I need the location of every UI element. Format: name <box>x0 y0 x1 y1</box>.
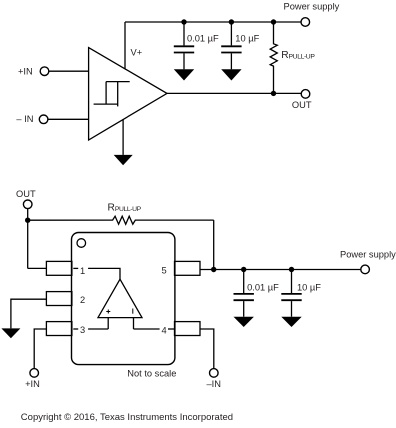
wire: - input stub <box>133 318 135 329</box>
wire: -IN to comparator <box>48 118 89 120</box>
node: power supply terminal (bottom) <box>361 265 370 274</box>
svg-text:0.01 µF: 0.01 µF <box>247 283 279 293</box>
node: junction dot cap2/rail <box>229 19 234 24</box>
wire: top power rail <box>125 21 301 23</box>
node: +IN terminal (bottom) <box>30 369 39 378</box>
wire: OUT down the left side <box>27 209 29 269</box>
capacitor C3 0.01 uF (bottom) <box>234 270 254 317</box>
svg-text:OUT: OUT <box>16 189 36 199</box>
svg-text:Power supply: Power supply <box>284 1 340 11</box>
wire: comparator output to OUT <box>167 92 301 94</box>
node: + input mark <box>106 310 110 314</box>
node: power supply terminal (top) <box>301 18 310 27</box>
node: pin 1 indicator circle <box>77 239 86 248</box>
capacitor C2 10 uF (top) <box>221 22 241 69</box>
pin 4 pad <box>175 322 201 336</box>
resistor R pull-up (top, vertical) <box>270 22 277 93</box>
wire: + input stub <box>107 318 109 329</box>
svg-text:OUT: OUT <box>292 100 312 110</box>
svg-text:Copyright © 2016, Texas Instru: Copyright © 2016, Texas Instruments Inco… <box>21 412 233 423</box>
pin 3 pad <box>46 322 72 336</box>
wire: pin 1 tick <box>73 267 78 269</box>
svg-text:V+: V+ <box>131 47 143 57</box>
pin 5 pad <box>175 261 201 275</box>
svg-text:4: 4 <box>162 325 167 335</box>
node: -IN terminal (top) <box>39 115 48 124</box>
wire: +IN to pin 3 <box>34 329 46 369</box>
svg-text:Not to scale: Not to scale <box>127 369 176 379</box>
hysteresis symbol inside comparator <box>94 82 130 107</box>
node: junction dot OUT/resistor <box>25 218 30 223</box>
capacitor C4 10 uF (bottom) <box>281 270 301 317</box>
svg-text:– IN: – IN <box>16 114 33 124</box>
ground: below C2 <box>221 69 241 80</box>
svg-text:2: 2 <box>80 295 85 305</box>
svg-text:0.01 µF: 0.01 µF <box>187 34 219 44</box>
svg-text:3: 3 <box>80 325 85 335</box>
node: junction dot cap4/rail <box>289 267 294 272</box>
capacitor C1 0.01 uF (top) <box>174 22 194 69</box>
wire: pin 1 to comparator output <box>88 268 120 279</box>
wire: pin 3 tick <box>73 328 78 330</box>
node: OUT terminal (bottom) <box>23 200 32 209</box>
svg-text:–IN: –IN <box>207 379 221 389</box>
ground: bottom left <box>1 328 20 338</box>
wire: ground from pin 2 <box>11 299 47 328</box>
wire: resistor down to power rail <box>213 220 215 269</box>
wire: - input to pin 4 <box>134 328 160 330</box>
wire: pin 4 to -IN <box>200 329 214 369</box>
IC package outline U1 (SC70-5) <box>72 233 175 365</box>
node: junction dot resistor/rail <box>271 19 276 24</box>
ground: below C3 <box>234 317 254 327</box>
ground: below comparator <box>114 119 133 165</box>
node: junction dot cap3/rail <box>241 267 246 272</box>
wire: pin 4 tick <box>168 328 175 330</box>
op-amp triangle inside package <box>98 279 142 317</box>
svg-text:Power supply: Power supply <box>340 249 396 259</box>
node: junction dot cap1/rail <box>181 19 186 24</box>
wire: pin 3 to + input <box>88 328 108 330</box>
node: junction dot resistor/output <box>271 91 276 96</box>
svg-text:10 µF: 10 µF <box>235 34 259 44</box>
resistor R pull-up (bottom, horizontal) <box>28 216 214 224</box>
node: OUT terminal (top) <box>301 90 310 99</box>
svg-text:10 µF: 10 µF <box>297 283 321 293</box>
svg-text:5: 5 <box>162 266 167 276</box>
svg-text:+IN: +IN <box>18 66 33 76</box>
ground: below C1 <box>174 69 194 80</box>
svg-text:+IN: +IN <box>25 379 40 389</box>
pin 2 pad <box>46 292 72 306</box>
node: junction dot resistor branch/rail <box>211 267 216 272</box>
wire: OUT to pin 1 <box>28 267 47 269</box>
wire: +IN to comparator <box>49 70 89 72</box>
ground: below C4 <box>281 317 301 327</box>
svg-text:1: 1 <box>80 266 85 276</box>
wire: bottom power rail <box>200 269 361 271</box>
node: - input mark <box>132 309 134 314</box>
pin 1 pad <box>46 261 72 275</box>
node: +IN terminal (top) <box>40 67 49 76</box>
node: -IN terminal (bottom) <box>210 369 219 378</box>
op-amp U1 comparator triangle <box>89 48 167 140</box>
wire: V+ supply line into comparator <box>124 22 126 69</box>
